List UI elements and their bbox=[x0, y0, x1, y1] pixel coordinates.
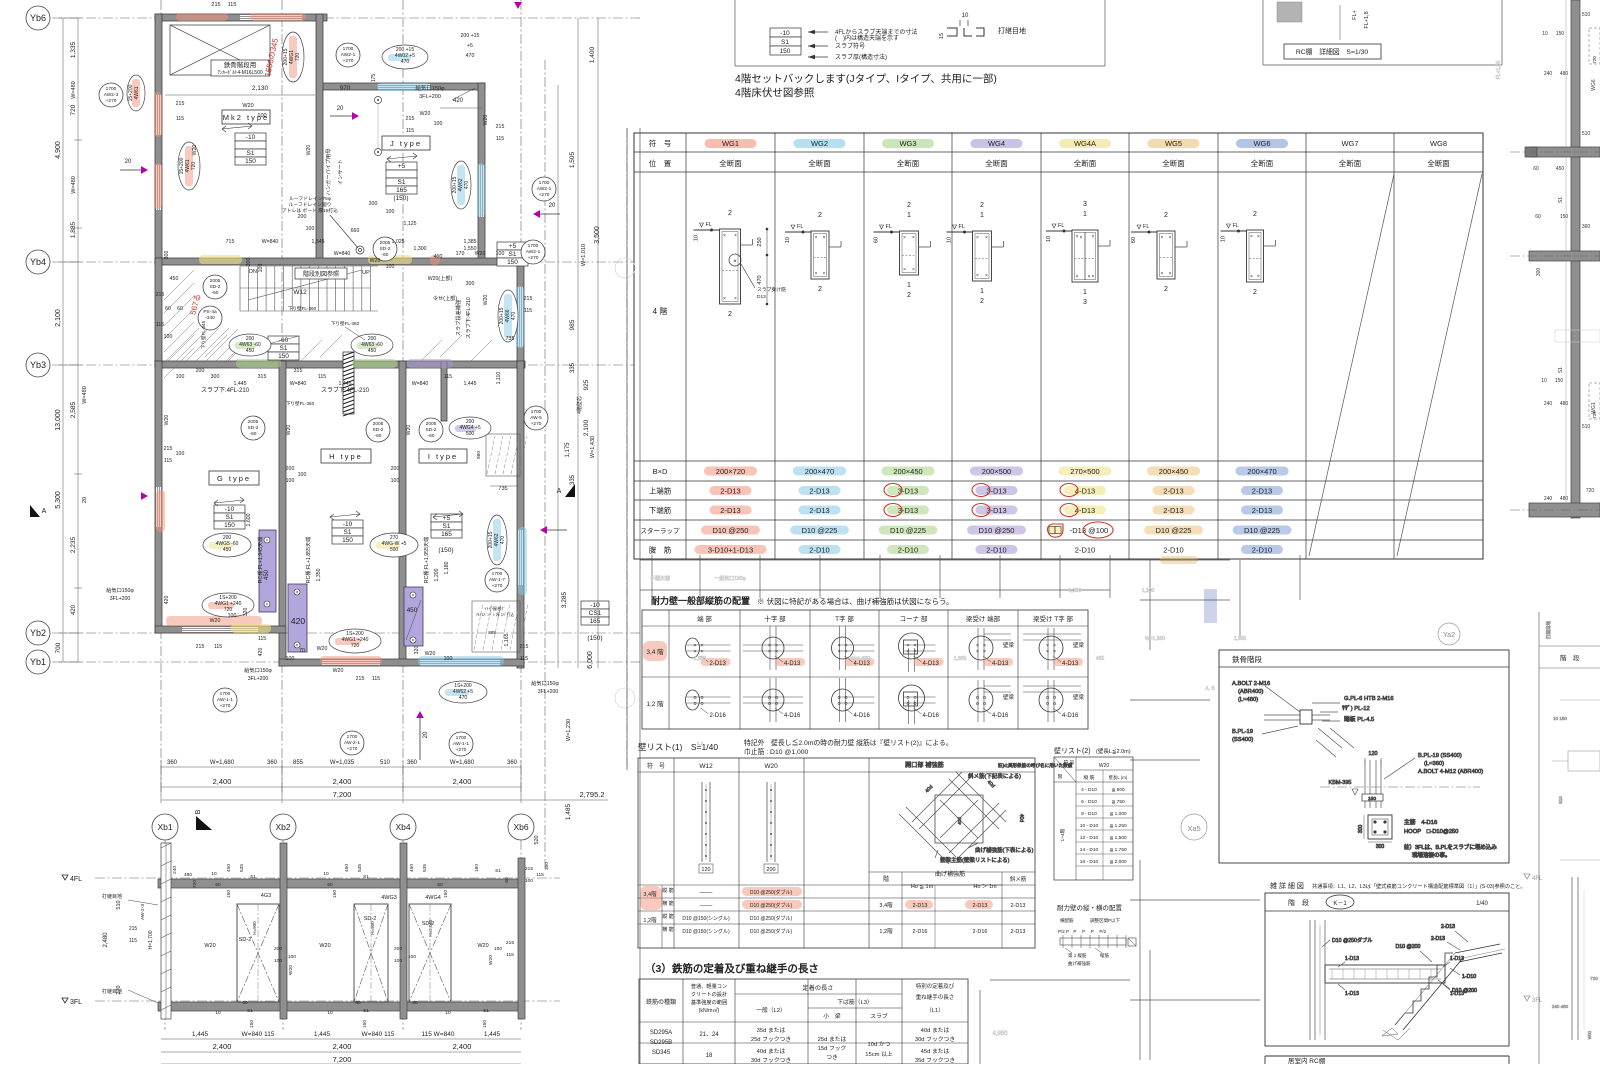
svg-text:360: 360 bbox=[407, 760, 418, 766]
svg-text:───: ─── bbox=[699, 890, 714, 896]
svg-text:RC棚:FL+1,945天端: RC棚:FL+1,945天端 bbox=[256, 537, 264, 584]
svg-text:13,000: 13,000 bbox=[55, 409, 62, 431]
stair treads bbox=[240, 266, 378, 311]
svg-text:25d フックつき: 25d フックつき bbox=[751, 1036, 791, 1043]
svg-text:-60: -60 bbox=[279, 337, 289, 344]
svg-text:720: 720 bbox=[295, 53, 301, 62]
svg-text:×: × bbox=[912, 267, 915, 273]
svg-text:4 階: 4 階 bbox=[653, 306, 668, 316]
svg-text:720: 720 bbox=[70, 104, 77, 115]
svg-text:鉄筋の種類: 鉄筋の種類 bbox=[646, 998, 676, 1006]
svg-text:100: 100 bbox=[386, 209, 395, 215]
svg-text:1/40: 1/40 bbox=[1476, 901, 1488, 907]
svg-text:2-D10: 2-D10 bbox=[809, 546, 829, 555]
svg-text:100: 100 bbox=[444, 656, 453, 662]
svg-text:FL: FL bbox=[959, 224, 965, 230]
wall list 1 bottom rows bbox=[640, 885, 802, 948]
svg-text:W=480: W=480 bbox=[71, 176, 77, 194]
svg-text:W=1,680: W=1,680 bbox=[1145, 636, 1165, 642]
svg-text:×: × bbox=[1169, 235, 1172, 241]
svg-text:居室内 RC棚: 居室内 RC棚 bbox=[1288, 1056, 1326, 1064]
svg-text:AW-5: AW-5 bbox=[530, 415, 542, 421]
svg-text:-340: -340 bbox=[205, 315, 215, 321]
svg-text:D10 @250: D10 @250 bbox=[713, 526, 749, 535]
svg-text:≦ 1,500: ≦ 1,500 bbox=[1109, 835, 1127, 841]
svg-text:上端筋: 上端筋 bbox=[649, 486, 672, 496]
svg-text:470: 470 bbox=[401, 59, 410, 65]
svg-text:4-D13: 4-D13 bbox=[992, 661, 1009, 667]
svg-text:B.PL-19: B.PL-19 bbox=[1232, 729, 1253, 735]
svg-text:+5: +5 bbox=[467, 43, 473, 49]
svg-text:Yb4: Yb4 bbox=[30, 257, 46, 267]
svg-text:S1: S1 bbox=[1558, 197, 1564, 203]
svg-text:4-D16: 4-D16 bbox=[1062, 713, 1079, 719]
svg-text:2,400: 2,400 bbox=[333, 1042, 352, 1051]
svg-text:4FL: 4FL bbox=[1532, 876, 1543, 882]
svg-text:W20: W20 bbox=[764, 763, 778, 770]
svg-text:下り壁FL-345: 下り壁FL-345 bbox=[200, 320, 207, 349]
svg-text:壁梁: 壁梁 bbox=[1003, 641, 1015, 649]
svg-text:2-D13: 2-D13 bbox=[1441, 924, 1455, 930]
svg-text:10: 10 bbox=[323, 871, 329, 877]
stadium labels (plan annotations) bbox=[99, 32, 556, 756]
svg-text:符 号: 符 号 bbox=[647, 762, 665, 770]
svg-text:-10: -10 bbox=[225, 506, 235, 513]
svg-text:320: 320 bbox=[243, 608, 249, 617]
svg-text:全断面: 全断面 bbox=[1339, 158, 1362, 168]
svg-text:SD345: SD345 bbox=[652, 1050, 671, 1056]
svg-text:×: × bbox=[913, 649, 916, 655]
faint underlay right of plan bbox=[627, 128, 1600, 1064]
svg-text:2,100: 2,100 bbox=[583, 419, 590, 436]
svg-text:SD295B: SD295B bbox=[650, 1040, 672, 1046]
svg-text:480: 480 bbox=[1560, 496, 1569, 502]
svg-text:×: × bbox=[844, 649, 847, 655]
svg-text:W=840: W=840 bbox=[290, 381, 307, 387]
svg-text:FL+1,85: FL+1,85 bbox=[1496, 61, 1502, 80]
svg-text:Xb2: Xb2 bbox=[275, 822, 290, 832]
svg-text:715: 715 bbox=[226, 239, 235, 245]
svg-text:o: o bbox=[1053, 701, 1056, 707]
svg-text:W20: W20 bbox=[242, 103, 253, 109]
svg-text:×: × bbox=[815, 271, 818, 277]
legend box top bbox=[735, 0, 1105, 66]
svg-text:W12: W12 bbox=[293, 289, 307, 296]
RC shelf detail box top right bbox=[1263, 0, 1502, 65]
svg-text:70: 70 bbox=[299, 648, 305, 654]
svg-text:115: 115 bbox=[536, 872, 544, 878]
svg-text:1,335: 1,335 bbox=[70, 41, 77, 58]
svg-text:115: 115 bbox=[228, 2, 237, 8]
svg-text:インサート: インサート bbox=[337, 159, 344, 185]
svg-text:1,985: 1,985 bbox=[694, 656, 707, 662]
svg-text:450: 450 bbox=[246, 348, 255, 354]
svg-text:10 150: 10 150 bbox=[1553, 716, 1567, 721]
svg-text:1-D13: 1-D13 bbox=[1345, 991, 1359, 997]
svg-text:1.2: 1.2 bbox=[697, 741, 704, 746]
svg-text:+270: +270 bbox=[220, 703, 231, 709]
svg-text:115: 115 bbox=[164, 458, 172, 464]
svg-text:165: 165 bbox=[396, 187, 407, 194]
svg-text:Xa5: Xa5 bbox=[1187, 824, 1200, 833]
svg-text:×: × bbox=[733, 259, 737, 265]
svg-text:2: 2 bbox=[1253, 289, 1257, 296]
svg-text:120: 120 bbox=[1368, 751, 1377, 757]
svg-text:720: 720 bbox=[1592, 411, 1597, 419]
svg-text:100: 100 bbox=[286, 478, 295, 484]
svg-text:35d または: 35d または bbox=[757, 1027, 786, 1034]
svg-text:320: 320 bbox=[414, 646, 420, 655]
svg-text:W=1,680: W=1,680 bbox=[850, 656, 870, 662]
svg-text:200×450: 200×450 bbox=[1159, 467, 1188, 476]
svg-text:×: × bbox=[296, 643, 299, 649]
svg-text:斜メ筋(下記表による): 斜メ筋(下記表による) bbox=[968, 772, 1021, 780]
svg-text:1,2階: 1,2階 bbox=[879, 927, 893, 935]
svg-text:S1: S1 bbox=[247, 1008, 253, 1014]
svg-text:×: × bbox=[734, 233, 737, 239]
svg-text:AW2-1: AW2-1 bbox=[537, 186, 552, 192]
svg-text:AW2-3: AW2-3 bbox=[104, 92, 119, 98]
svg-text:2-D13: 2-D13 bbox=[720, 487, 740, 496]
svg-text:梁受け T字 部: 梁受け T字 部 bbox=[1033, 614, 1074, 623]
svg-text:3,285: 3,285 bbox=[561, 591, 568, 608]
svg-text:1,445: 1,445 bbox=[192, 1031, 209, 1038]
svg-text:150: 150 bbox=[780, 48, 791, 55]
svg-text:ハンガーパイプ用母: ハンガーパイプ用母 bbox=[324, 149, 332, 196]
svg-text:115: 115 bbox=[214, 644, 222, 650]
svg-text:2-D13: 2-D13 bbox=[1011, 903, 1026, 909]
svg-text:S1: S1 bbox=[247, 150, 255, 157]
svg-text:2,400: 2,400 bbox=[213, 777, 232, 786]
svg-text:令せ(上部): 令せ(上部) bbox=[433, 294, 457, 302]
svg-text:470: 470 bbox=[466, 53, 475, 59]
svg-text:2,100: 2,100 bbox=[55, 309, 62, 327]
svg-text:SD-2: SD-2 bbox=[364, 916, 377, 922]
svg-text:×: × bbox=[1161, 235, 1164, 241]
svg-text:下端筋: 下端筋 bbox=[649, 505, 672, 515]
svg-text:×: × bbox=[1257, 234, 1260, 240]
svg-text:o: o bbox=[700, 701, 703, 707]
svg-text:2-D13: 2-D13 bbox=[809, 506, 829, 515]
svg-text:30d フックつき: 30d フックつき bbox=[915, 1036, 955, 1043]
svg-text:150: 150 bbox=[507, 259, 518, 266]
svg-text:2: 2 bbox=[728, 311, 732, 318]
svg-text:100: 100 bbox=[228, 613, 237, 619]
svg-text:200×720: 200×720 bbox=[716, 467, 745, 476]
svg-text:KBM-395: KBM-395 bbox=[1329, 780, 1352, 786]
svg-text:給気口150φ: 給気口150φ bbox=[531, 679, 559, 687]
svg-text:3: 3 bbox=[1083, 201, 1087, 208]
svg-text:(150): (150) bbox=[438, 547, 453, 554]
wall list 1 wall sections bbox=[699, 782, 778, 873]
svg-text:6,000: 6,000 bbox=[587, 651, 594, 669]
svg-text:W20: W20 bbox=[420, 111, 431, 117]
svg-text:360: 360 bbox=[167, 760, 178, 766]
svg-text:階 段: 階 段 bbox=[1288, 898, 1309, 907]
svg-text:-10: -10 bbox=[590, 602, 600, 609]
svg-text:(150): (150) bbox=[587, 635, 602, 642]
svg-text:2: 2 bbox=[1253, 211, 1257, 218]
svg-text:位 置: 位 置 bbox=[649, 158, 672, 168]
svg-text:115: 115 bbox=[496, 136, 504, 142]
svg-text:斜メ筋: 斜メ筋 bbox=[1010, 875, 1027, 883]
svg-text:240 480: 240 480 bbox=[1552, 1004, 1569, 1009]
svg-text:100: 100 bbox=[258, 264, 264, 273]
svg-text:AW-2-3: AW-2-3 bbox=[140, 904, 146, 920]
svg-text:（3）鉄筋の定着及び重ね継手の長さ: （3）鉄筋の定着及び重ね継手の長さ bbox=[645, 962, 819, 975]
svg-text:420: 420 bbox=[291, 616, 305, 626]
svg-text:30d フックつき: 30d フックつき bbox=[751, 1057, 791, 1064]
svg-text:1,505: 1,505 bbox=[569, 151, 576, 168]
svg-text:2: 2 bbox=[980, 298, 984, 305]
svg-text:現場溶接の事。: 現場溶接の事。 bbox=[1412, 851, 1451, 859]
WG7 WG8 strike diagonals bbox=[1309, 174, 1482, 556]
svg-text:1,200: 1,200 bbox=[434, 568, 440, 581]
svg-text:720: 720 bbox=[1586, 488, 1595, 494]
svg-text:115: 115 bbox=[406, 128, 414, 134]
bearing wall cell diagrams bbox=[686, 626, 1085, 724]
svg-text:手摺天端: 手摺天端 bbox=[650, 575, 670, 582]
svg-text:W20: W20 bbox=[1099, 763, 1110, 769]
svg-text:2,400: 2,400 bbox=[333, 777, 352, 786]
svg-text:FL+1,8: FL+1,8 bbox=[1364, 11, 1370, 28]
svg-text:W20: W20 bbox=[483, 115, 489, 126]
svg-text:FL: FL bbox=[1233, 223, 1239, 229]
svg-text:115: 115 bbox=[176, 116, 184, 122]
svg-text:W20: W20 bbox=[488, 955, 494, 965]
svg-text:FL: FL bbox=[1058, 223, 1064, 229]
svg-text:×: × bbox=[823, 271, 826, 277]
svg-text:115: 115 bbox=[506, 952, 514, 958]
svg-text:2-D13: 2-D13 bbox=[809, 487, 829, 496]
svg-text:H=2,065: H=2,065 bbox=[428, 919, 433, 937]
svg-text:W20: W20 bbox=[333, 668, 344, 674]
svg-text:215: 215 bbox=[406, 116, 415, 122]
svg-text:CS1: CS1 bbox=[589, 610, 602, 617]
svg-text:1,180: 1,180 bbox=[444, 561, 450, 574]
svg-text:25d または: 25d または bbox=[818, 1036, 847, 1043]
svg-text:G.PL-6 HTB 2-M16: G.PL-6 HTB 2-M16 bbox=[1344, 696, 1394, 702]
svg-text:D10 @250(ダブル): D10 @250(ダブル) bbox=[750, 928, 793, 935]
svg-text:H=1,700: H=1,700 bbox=[148, 930, 154, 949]
svg-text:スラブ受け筋: スラブ受け筋 bbox=[757, 286, 786, 293]
anchorage table bbox=[639, 962, 968, 1064]
svg-text:×: × bbox=[1092, 234, 1095, 240]
svg-text:o: o bbox=[983, 701, 986, 707]
svg-text:1,400: 1,400 bbox=[589, 46, 596, 63]
svg-text:2,400: 2,400 bbox=[453, 777, 472, 786]
svg-text:20: 20 bbox=[423, 731, 429, 738]
svg-text:10: 10 bbox=[785, 237, 791, 243]
svg-text:AW2-1: AW2-1 bbox=[341, 52, 356, 58]
svg-text:4-D16: 4-D16 bbox=[784, 713, 801, 719]
svg-text:AW-1-1: AW-1-1 bbox=[453, 741, 469, 747]
svg-text:2-D13: 2-D13 bbox=[720, 506, 740, 515]
svg-text:1,485: 1,485 bbox=[565, 803, 572, 820]
svg-text:+5: +5 bbox=[509, 243, 517, 250]
svg-text:200: 200 bbox=[394, 946, 402, 952]
svg-text:200×470: 200×470 bbox=[805, 467, 834, 476]
svg-text:+270: +270 bbox=[343, 58, 354, 64]
svg-text:1700: 1700 bbox=[347, 734, 358, 740]
faint underlay lines bbox=[640, 61, 1502, 1064]
wall vertical/horizontal layout mini diagram bbox=[1057, 903, 1136, 967]
svg-text:2005: 2005 bbox=[373, 421, 384, 427]
svg-text:×: × bbox=[266, 538, 269, 544]
svg-text:1: 1 bbox=[1083, 211, 1087, 218]
svg-text:215: 215 bbox=[129, 926, 138, 932]
svg-text:150: 150 bbox=[362, 1020, 368, 1028]
svg-text:+270: +270 bbox=[347, 746, 358, 752]
right edge lower sheet fragments bbox=[1545, 621, 1600, 1040]
svg-text:470: 470 bbox=[464, 181, 470, 190]
svg-text:(150): (150) bbox=[393, 195, 408, 202]
svg-text:10d かつ: 10d かつ bbox=[868, 1041, 891, 1048]
svg-text:1-D13: 1-D13 bbox=[1345, 956, 1359, 962]
svg-text:115: 115 bbox=[372, 676, 380, 682]
steel stair hatch box top-left bbox=[170, 25, 270, 76]
svg-text:535: 535 bbox=[357, 864, 363, 872]
svg-text:o: o bbox=[1046, 701, 1049, 707]
svg-text:-60: -60 bbox=[375, 433, 382, 439]
svg-text:10: 10 bbox=[1541, 378, 1547, 384]
magenta arrows bbox=[120, 2, 567, 760]
svg-text:300: 300 bbox=[466, 281, 475, 287]
svg-text:315: 315 bbox=[294, 368, 303, 374]
svg-text:WG6: WG6 bbox=[1253, 139, 1270, 148]
svg-text:1: 1 bbox=[1083, 289, 1087, 296]
svg-text:2-D13: 2-D13 bbox=[710, 661, 727, 667]
svg-text:o: o bbox=[844, 701, 847, 707]
svg-text:W=840 115: W=840 115 bbox=[242, 1031, 275, 1038]
svg-text:縦 筋: 縦 筋 bbox=[662, 887, 673, 894]
svg-text:打継目地: 打継目地 bbox=[1545, 621, 1552, 639]
svg-text:W20: W20 bbox=[288, 965, 294, 975]
svg-text:150: 150 bbox=[224, 522, 235, 529]
svg-text:1,300: 1,300 bbox=[414, 246, 427, 252]
svg-text:4-D13: 4-D13 bbox=[923, 661, 940, 667]
svg-text:AW-1-1: AW-1-1 bbox=[217, 697, 233, 703]
svg-text:980: 980 bbox=[476, 451, 482, 459]
svg-text:720: 720 bbox=[351, 643, 360, 649]
plan bottom dimensions bbox=[161, 760, 608, 803]
svg-text:4階セットバックします(Jタイプ、Iタイプ、共用に一部): 4階セットバックします(Jタイプ、Iタイプ、共用に一部) bbox=[735, 72, 997, 85]
svg-text:+270: +270 bbox=[456, 747, 467, 753]
svg-text:885: 885 bbox=[488, 630, 496, 635]
svg-text:給気口150φ: 給気口150φ bbox=[415, 84, 445, 92]
svg-text:+270: +270 bbox=[106, 98, 117, 104]
svg-text:1,445: 1,445 bbox=[464, 381, 477, 387]
svg-text:240: 240 bbox=[1544, 71, 1553, 77]
plan top small dims bbox=[165, 2, 482, 119]
svg-text:115: 115 bbox=[444, 374, 452, 380]
svg-text:660: 660 bbox=[351, 228, 360, 234]
svg-text:壁梁主筋(壁梁リストによる): 壁梁主筋(壁梁リストによる) bbox=[940, 856, 1010, 864]
svg-text:100: 100 bbox=[394, 958, 402, 964]
svg-text:×: × bbox=[985, 235, 988, 241]
svg-text:SD-2: SD-2 bbox=[210, 284, 221, 290]
svg-text:つき: つき bbox=[826, 1054, 838, 1061]
svg-text:10: 10 bbox=[1046, 236, 1052, 242]
svg-text:一般（L2）: 一般（L2） bbox=[756, 1006, 786, 1014]
svg-text:200: 200 bbox=[246, 258, 252, 267]
svg-text:2-D10: 2-D10 bbox=[986, 546, 1006, 555]
svg-text:+270: +270 bbox=[539, 192, 550, 198]
svg-text:60: 60 bbox=[1131, 237, 1137, 243]
svg-text:W=840 115: W=840 115 bbox=[362, 1031, 395, 1038]
svg-text:200: 200 bbox=[766, 867, 775, 873]
svg-text:2: 2 bbox=[728, 210, 732, 217]
svg-text:360: 360 bbox=[267, 760, 278, 766]
svg-text:3: 3 bbox=[1083, 299, 1087, 306]
svg-text:115: 115 bbox=[520, 656, 528, 662]
svg-text:踏板 PL-4.5: 踏板 PL-4.5 bbox=[1344, 715, 1374, 723]
svg-text:10: 10 bbox=[1221, 236, 1227, 242]
svg-text:AW-1-7: AW-1-7 bbox=[489, 577, 505, 583]
svg-text:給気口150φ: 給気口150φ bbox=[106, 586, 134, 594]
svg-text:開口部 補強筋: 開口部 補強筋 bbox=[905, 761, 944, 769]
svg-text:510: 510 bbox=[1582, 424, 1591, 430]
svg-text:o: o bbox=[693, 701, 696, 707]
svg-text:2-D13: 2-D13 bbox=[1431, 936, 1445, 942]
svg-text:Yb6: Yb6 bbox=[30, 13, 46, 23]
svg-text:SD-2: SD-2 bbox=[239, 937, 252, 943]
svg-text:40d: 40d bbox=[957, 817, 962, 825]
svg-text:40d: 40d bbox=[1018, 814, 1024, 823]
svg-text:40d または: 40d または bbox=[757, 1048, 786, 1055]
svg-text:2-D13: 2-D13 bbox=[973, 903, 988, 909]
svg-text:420: 420 bbox=[71, 604, 77, 615]
svg-text:60: 60 bbox=[242, 1000, 248, 1006]
scattered small annotation texts plan bbox=[106, 33, 559, 695]
svg-text:≦ 1,000: ≦ 1,000 bbox=[1109, 811, 1127, 817]
svg-text:Ya2: Ya2 bbox=[1443, 632, 1455, 639]
svg-text:2005: 2005 bbox=[380, 240, 391, 246]
svg-text:A: A bbox=[42, 508, 47, 515]
svg-text:270: 270 bbox=[116, 985, 122, 994]
svg-text:2: 2 bbox=[907, 292, 911, 299]
misc diagonal marks lower band bbox=[205, 335, 492, 364]
svg-text:2: 2 bbox=[907, 202, 911, 209]
svg-text:470: 470 bbox=[511, 312, 517, 321]
svg-text:100: 100 bbox=[176, 451, 185, 457]
svg-text:RC棚:FL+1,955天端: RC棚:FL+1,955天端 bbox=[422, 537, 430, 584]
svg-text:60: 60 bbox=[355, 1000, 361, 1006]
svg-text:500: 500 bbox=[390, 547, 399, 553]
svg-text:2,585: 2,585 bbox=[70, 401, 77, 418]
svg-text:720: 720 bbox=[192, 880, 198, 888]
svg-text:S1: S1 bbox=[363, 874, 369, 880]
svg-text:鉄骨階段用: 鉄骨階段用 bbox=[224, 60, 257, 69]
svg-text:3,4階: 3,4階 bbox=[643, 890, 657, 898]
svg-text:D10 @225: D10 @225 bbox=[1244, 526, 1280, 535]
svg-text:1700: 1700 bbox=[220, 691, 231, 697]
svg-text:D10 @250(ダブル): D10 @250(ダブル) bbox=[750, 902, 793, 909]
svg-text:AW-2-1: AW-2-1 bbox=[344, 740, 360, 746]
svg-text:端 部: 端 部 bbox=[697, 614, 712, 623]
svg-text:o: o bbox=[768, 701, 771, 707]
svg-text:1,350: 1,350 bbox=[316, 568, 322, 581]
svg-text:o: o bbox=[913, 701, 916, 707]
svg-text:200×500: 200×500 bbox=[982, 467, 1011, 476]
svg-text:35d フックつき: 35d フックつき bbox=[915, 1057, 955, 1064]
svg-text:1,175: 1,175 bbox=[565, 442, 571, 458]
svg-text:115 W=840: 115 W=840 bbox=[422, 1031, 455, 1038]
svg-text:470: 470 bbox=[757, 275, 763, 284]
svg-text:-10: -10 bbox=[246, 134, 256, 141]
plan walls bbox=[155, 14, 527, 668]
svg-text:855: 855 bbox=[293, 760, 304, 766]
